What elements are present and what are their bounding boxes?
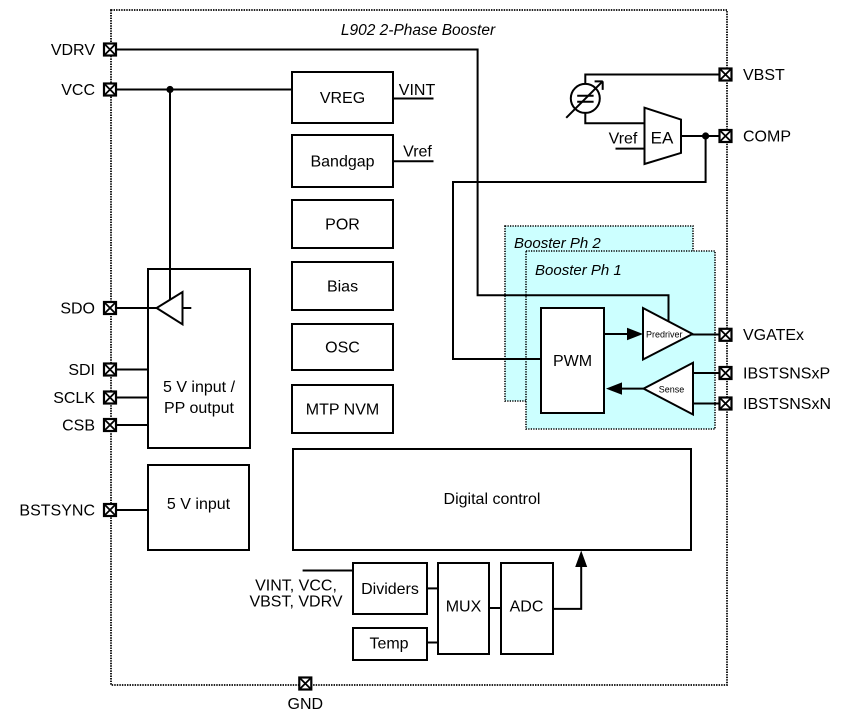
- svg-text:Vref: Vref: [609, 131, 638, 148]
- op-amp EA: [645, 108, 682, 164]
- wire current source to EA input: [585, 113, 644, 123]
- svg-text:MTP NVM: MTP NVM: [306, 402, 379, 419]
- svg-text:MUX: MUX: [446, 599, 482, 616]
- wire Sense input P: [693, 372, 719, 374]
- amplifier Sense: [644, 363, 693, 415]
- wire into Dividers: [303, 570, 353, 572]
- svg-text:Booster Ph 1: Booster Ph 1: [535, 262, 622, 279]
- block MTP NVM: [292, 385, 393, 433]
- svg-text:Digital control: Digital control: [444, 491, 541, 508]
- block Dividers: [353, 563, 427, 614]
- block Booster Ph 1: [526, 251, 715, 429]
- svg-text:COMP: COMP: [743, 129, 791, 146]
- svg-text:VBST, VDRV: VBST, VDRV: [249, 594, 342, 611]
- wire VCC to VREG: [117, 89, 292, 91]
- wire VDRV to predriver supply: [117, 50, 669, 323]
- pin IBSTSNSxN: [720, 398, 732, 410]
- pin COMP: [720, 130, 732, 142]
- svg-text:5 V input: 5 V input: [167, 496, 231, 513]
- block Digital control: [293, 449, 691, 550]
- buffer at SDO: [157, 292, 192, 324]
- svg-text:L902 2-Phase Booster: L902 2-Phase Booster: [341, 22, 496, 39]
- wire ADC to Digital control with arrowhead: [553, 551, 587, 609]
- wire Sense input N: [693, 403, 719, 405]
- svg-text:PP output: PP output: [164, 400, 235, 417]
- wire Vref stub from Bandgap: [393, 160, 434, 162]
- svg-text:IBSTSNSxN: IBSTSNSxN: [743, 396, 831, 413]
- svg-text:PWM: PWM: [553, 353, 592, 370]
- svg-text:Vref: Vref: [403, 144, 432, 161]
- svg-text:GND: GND: [288, 696, 324, 713]
- pin VBST: [720, 69, 732, 81]
- label VINT, VCC, VBST, VDRV: [249, 578, 342, 611]
- amplifier Predriver: [643, 308, 693, 360]
- wire SDI: [117, 369, 148, 371]
- wire EA output to COMP: [681, 135, 719, 137]
- block MUX: [438, 563, 489, 654]
- pin CSB: [104, 419, 116, 431]
- pin BSTSYNC: [104, 504, 116, 516]
- wire Predriver to VGATEx: [692, 334, 719, 336]
- pin SDO: [104, 302, 116, 314]
- svg-text:Booster Ph 2: Booster Ph 2: [514, 235, 601, 252]
- pin VCC: [104, 84, 116, 96]
- block Booster Ph 2: [505, 226, 693, 401]
- svg-text:Dividers: Dividers: [361, 581, 419, 598]
- svg-text:CSB: CSB: [62, 418, 95, 435]
- block Bandgap: [292, 135, 393, 187]
- chip outline (dotted border): [111, 10, 727, 685]
- wire Temp to MUX: [427, 642, 438, 644]
- svg-text:VCC: VCC: [61, 82, 95, 99]
- svg-text:VINT, VCC,: VINT, VCC,: [255, 578, 337, 595]
- svg-text:SDO: SDO: [60, 301, 95, 318]
- svg-text:5 V input /: 5 V input /: [163, 379, 236, 396]
- svg-text:Bias: Bias: [327, 279, 358, 296]
- wire Dividers to MUX: [427, 587, 438, 589]
- pin SDI: [104, 364, 116, 376]
- wire PWM to Predriver with arrowhead: [604, 328, 643, 340]
- wire SCLK: [117, 397, 148, 399]
- block 5 V input: [148, 465, 249, 550]
- svg-text:Bandgap: Bandgap: [310, 154, 374, 171]
- svg-text:VREG: VREG: [320, 90, 365, 107]
- wire MUX to ADC: [489, 607, 501, 609]
- wire VCC branch down to SDO buffer: [169, 90, 171, 301]
- wire SDO: [117, 307, 157, 309]
- svg-text:Temp: Temp: [369, 636, 408, 653]
- block 5 V input / PP output: [148, 269, 250, 448]
- block OSC: [292, 324, 393, 370]
- wire Sense to PWM with arrowhead: [606, 382, 644, 394]
- wire COMP feedback to PWM: [453, 136, 706, 359]
- svg-text:EA: EA: [651, 129, 674, 148]
- wire BSTSYNC: [117, 509, 148, 511]
- wire Vref into EA: [616, 148, 645, 150]
- pin GND: [299, 678, 311, 690]
- svg-text:VGATEx: VGATEx: [743, 327, 804, 344]
- wire VINT stub: [393, 98, 434, 100]
- svg-text:SDI: SDI: [68, 362, 95, 379]
- svg-text:Predriver: Predriver: [646, 329, 683, 339]
- pin VDRV: [104, 44, 116, 56]
- svg-text:BSTSYNC: BSTSYNC: [19, 503, 95, 520]
- current source symbol: [566, 81, 603, 118]
- wire CSB: [117, 424, 148, 426]
- svg-text:POR: POR: [325, 217, 360, 234]
- block ADC: [501, 563, 553, 654]
- pin VGATEx: [720, 329, 732, 341]
- node VCC junction: [166, 86, 173, 93]
- node COMP junction: [702, 132, 709, 139]
- svg-text:IBSTSNSxP: IBSTSNSxP: [743, 366, 830, 383]
- svg-text:VINT: VINT: [399, 82, 436, 99]
- block VREG: [292, 72, 393, 123]
- svg-text:ADC: ADC: [510, 599, 544, 616]
- block PWM: [541, 308, 604, 413]
- block Temp: [353, 628, 427, 660]
- wire current source to VBST: [585, 75, 719, 85]
- pin SCLK: [104, 392, 116, 404]
- svg-text:SCLK: SCLK: [53, 390, 95, 407]
- svg-text:Sense: Sense: [659, 384, 685, 394]
- svg-text:VBST: VBST: [743, 67, 785, 84]
- svg-text:OSC: OSC: [325, 340, 360, 357]
- block Bias: [292, 262, 393, 310]
- pin IBSTSNSxP: [720, 367, 732, 379]
- svg-text:VDRV: VDRV: [51, 42, 95, 59]
- block POR: [292, 200, 393, 248]
